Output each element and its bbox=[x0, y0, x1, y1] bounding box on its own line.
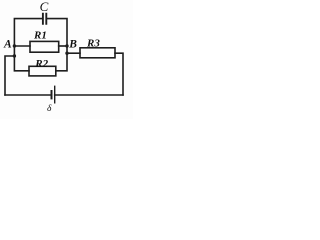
svg-text:B: B bbox=[68, 38, 77, 50]
svg-text:R2: R2 bbox=[34, 58, 48, 70]
node B junction dot bbox=[65, 44, 68, 47]
wire A-junction left to outer loop bbox=[5, 46, 14, 95]
wire battery to bottom right bbox=[55, 94, 123, 96]
wire R1 to node B bbox=[59, 45, 67, 47]
wire capacitor loop top-right bbox=[46, 19, 67, 46]
wire R2 to node B vertical bbox=[56, 53, 67, 71]
wire capacitor loop top-left bbox=[14, 19, 42, 46]
wire R3 tee to R3 bbox=[67, 52, 80, 54]
svg-text:A: A bbox=[3, 39, 12, 51]
svg-text:δ: δ bbox=[47, 104, 52, 114]
junction dot R3 tee bbox=[65, 52, 68, 55]
wire R3 to right edge down bbox=[115, 53, 123, 95]
junction dot left tee bbox=[13, 54, 16, 57]
wire down to R2 bbox=[14, 56, 29, 71]
svg-text:R3: R3 bbox=[86, 38, 100, 50]
node A junction dot bbox=[13, 44, 16, 47]
wire node B down to R3 tee bbox=[66, 46, 68, 54]
capacitor C1 right plate bbox=[45, 14, 47, 24]
resistor R3 body bbox=[80, 48, 115, 58]
wire node A to R1 bbox=[14, 45, 30, 47]
capacitor C1 left plate bbox=[42, 14, 44, 24]
wire bottom left to battery bbox=[5, 94, 52, 96]
svg-text:R1: R1 bbox=[33, 30, 47, 42]
svg-text:C: C bbox=[40, 0, 49, 14]
resistor R2 body bbox=[29, 66, 56, 76]
battery long plate bbox=[54, 86, 56, 103]
battery short plate bbox=[51, 91, 53, 98]
resistor R1 body bbox=[30, 41, 59, 52]
